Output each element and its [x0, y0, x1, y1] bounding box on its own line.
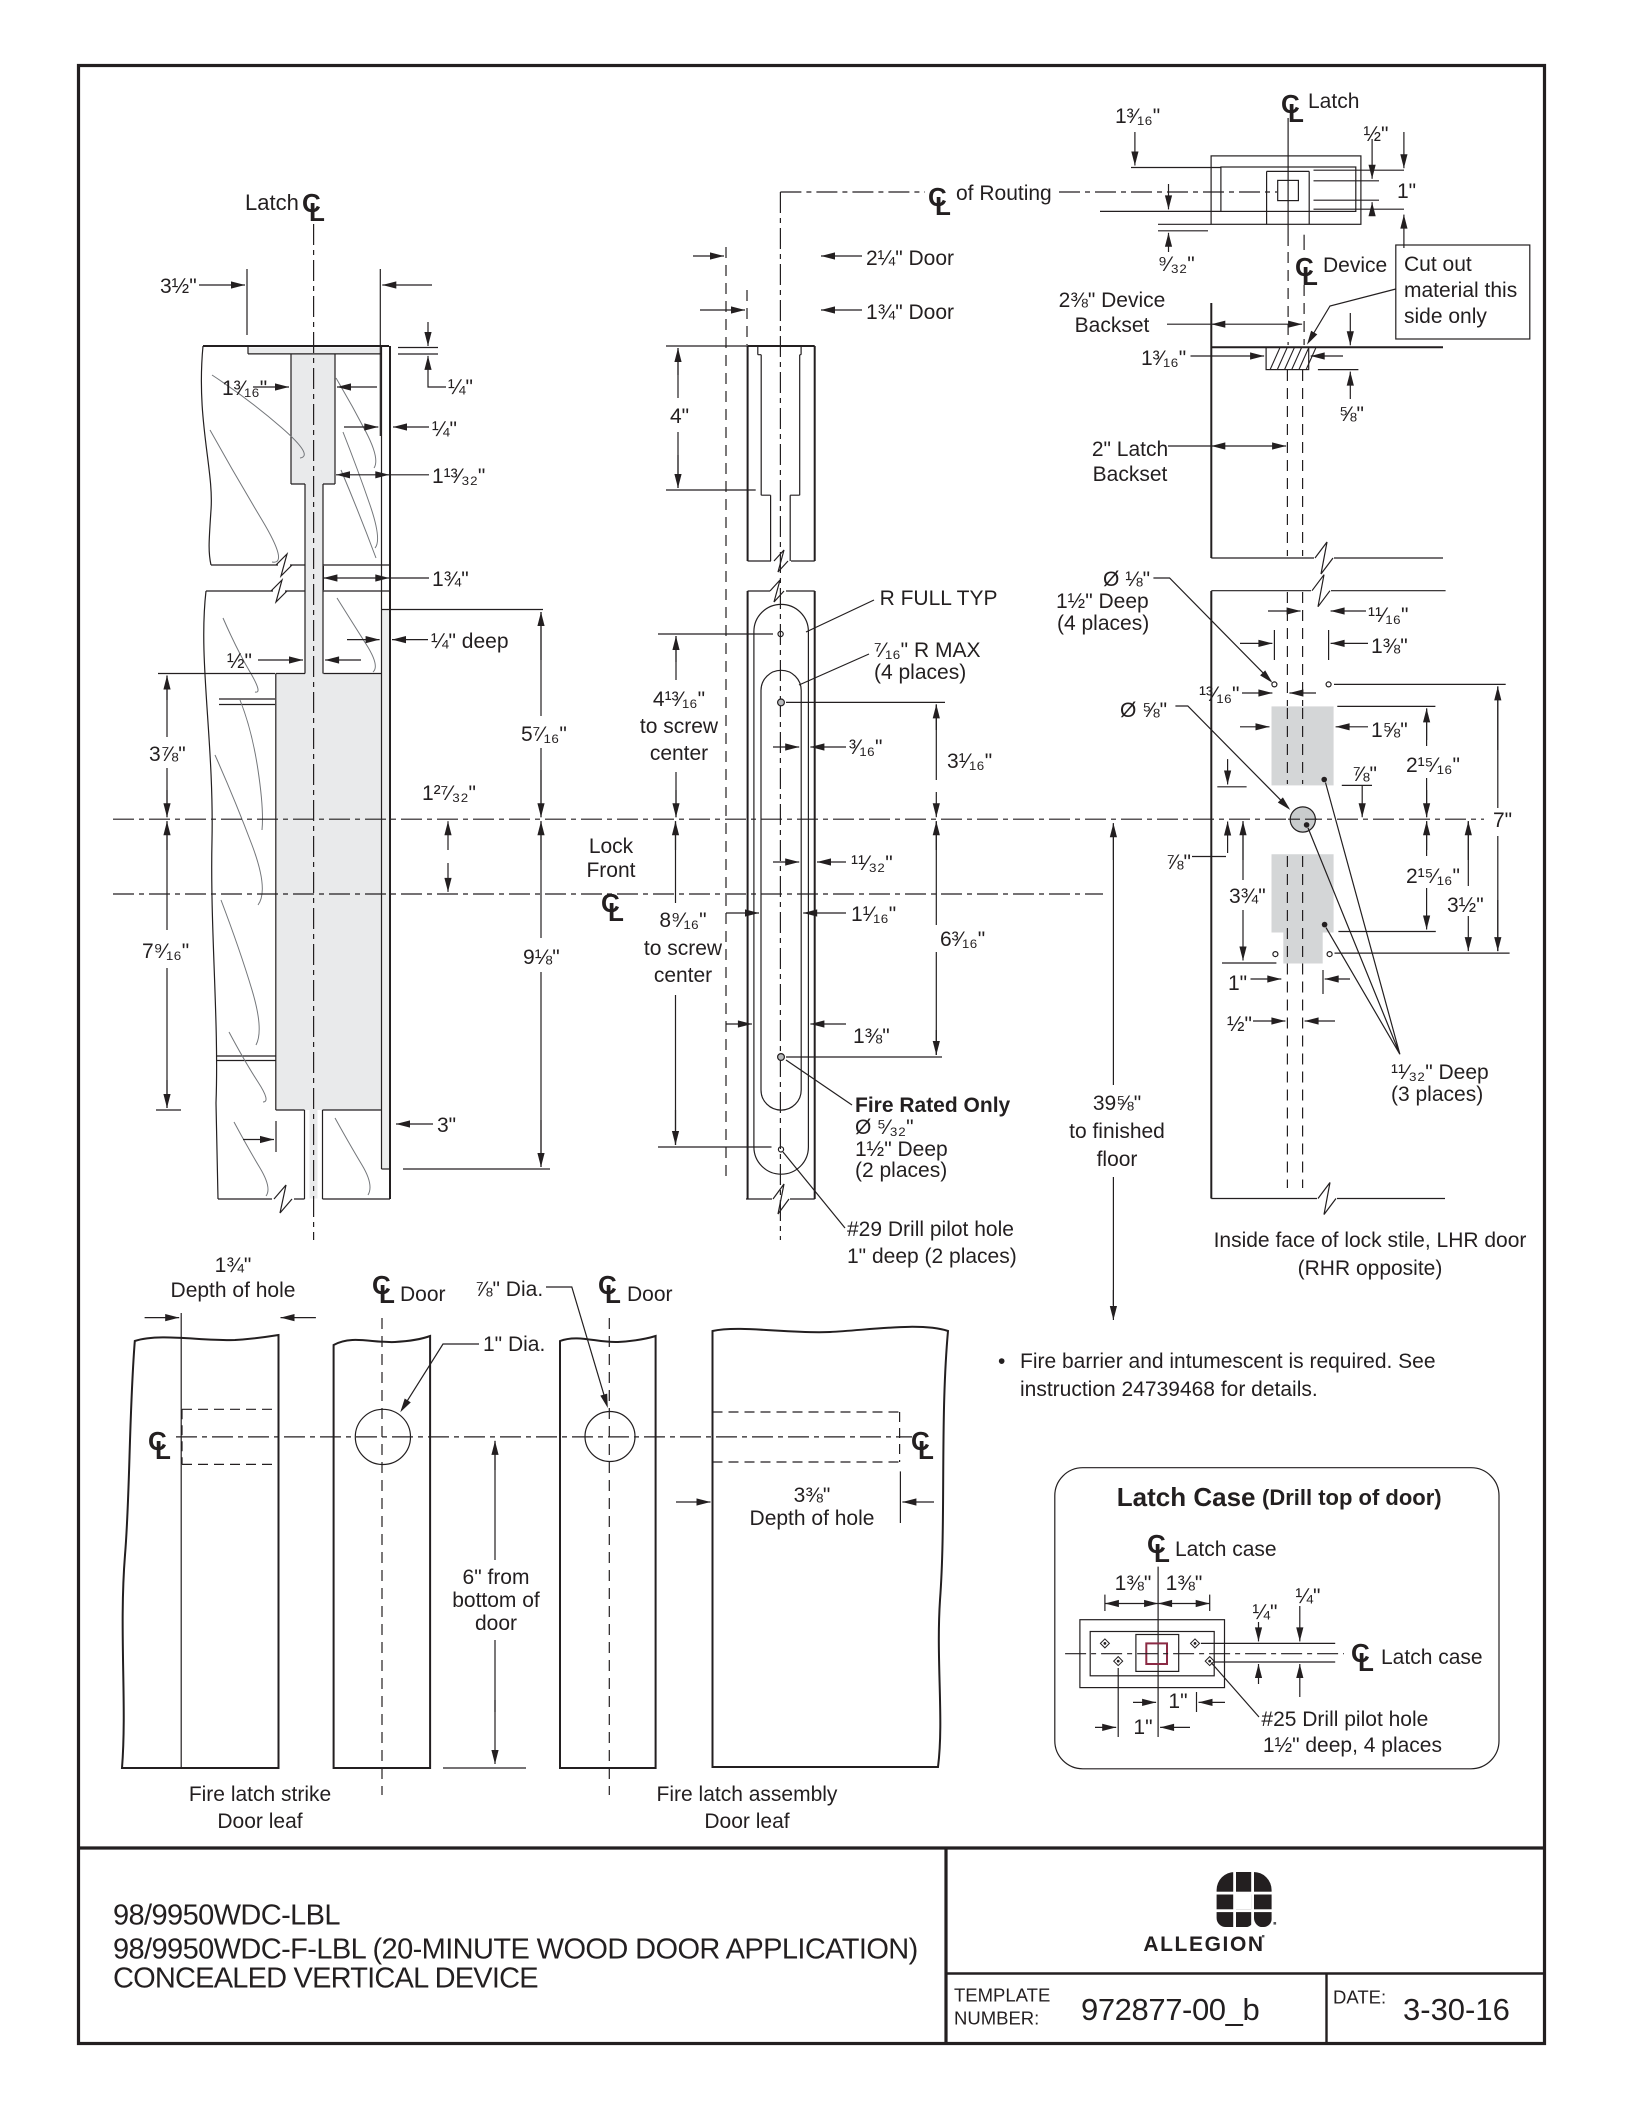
middle view vertical centerline [779, 192, 781, 1240]
svg-text:Latch case: Latch case [1175, 1538, 1277, 1561]
svg-text:R FULL TYP: R FULL TYP [880, 587, 998, 610]
svg-text:2⅜" Device: 2⅜" Device [1059, 289, 1166, 312]
lock stile upper break edge [1211, 557, 1314, 559]
svg-text:1": 1" [1168, 1690, 1187, 1713]
left view narrow channel fill upper [305, 484, 323, 674]
latch case pilot marker 4 [1205, 1657, 1214, 1666]
svg-text:1⅜": 1⅜" [853, 1025, 890, 1048]
pilot hole top (#29) [778, 631, 783, 636]
pilot hole bottom (#29) [778, 1147, 783, 1152]
dimension 1-13/32 inch (left view) [336, 474, 389, 476]
svg-text:(4 places): (4 places) [1057, 612, 1149, 635]
svg-text:(Drill top of door): (Drill top of door) [1262, 1485, 1442, 1510]
svg-text:⅞": ⅞" [1352, 763, 1377, 786]
svg-text:¹³⁄₁₆": ¹³⁄₁₆" [1199, 683, 1240, 706]
latch case plate inner rect [1090, 1632, 1214, 1676]
lock stile left edge [1210, 303, 1212, 1199]
latch case pilot marker 2 [1114, 1657, 1123, 1666]
svg-text:Cut out: Cut out [1404, 253, 1472, 276]
device centerline dashes lower stile [1302, 964, 1304, 1189]
label CL Door (leaf C) [598, 1270, 621, 1309]
left view lower section top break edge [206, 590, 273, 592]
svg-text:1¾" Door: 1¾" Door [866, 301, 954, 324]
svg-text:¼" deep: ¼" deep [431, 630, 509, 653]
title block logo/number divider [946, 1972, 1545, 1974]
svg-text:NUMBER:: NUMBER: [954, 2008, 1039, 2029]
Allegion logo mark [1215, 1870, 1272, 1928]
svg-text:2" Latch: 2" Latch [1092, 438, 1168, 461]
latch case horizontal centerline [1065, 1653, 1344, 1655]
svg-text:4¹³⁄₁₆": 4¹³⁄₁₆" [653, 688, 705, 711]
title block template/date divider [1325, 1974, 1327, 2044]
screw hole upper (gray) [778, 699, 785, 706]
lock stile top edge [1211, 346, 1443, 348]
svg-text:9⅛": 9⅛" [523, 946, 560, 969]
svg-text:L: L [1154, 1538, 1170, 1568]
left view narrow channel outline upper [305, 484, 323, 674]
middle view upper break edge [748, 560, 771, 562]
svg-text:L: L [605, 1279, 621, 1309]
svg-text:#25 Drill pilot hole: #25 Drill pilot hole [1261, 1708, 1428, 1731]
left view face routing inner line [381, 346, 383, 1169]
svg-text:4": 4" [670, 405, 689, 428]
svg-text:39⅝": 39⅝" [1093, 1092, 1141, 1115]
cutout hatched rectangle [1266, 347, 1309, 369]
svg-text:(3 places): (3 places) [1391, 1083, 1483, 1106]
svg-text:Depth of hole: Depth of hole [171, 1279, 296, 1302]
device centerline through lower block [1302, 856, 1304, 961]
leaf B vertical centerline [381, 1318, 383, 1795]
label CL of Routing [928, 182, 951, 221]
svg-text:Latch: Latch [1308, 90, 1359, 113]
horizontal centerline through leaves [176, 1436, 912, 1438]
svg-text:L: L [1358, 1647, 1374, 1677]
svg-text:Fire barrier and intumescent i: Fire barrier and intumescent is required… [1020, 1350, 1436, 1373]
leaf D outline [713, 1327, 949, 1767]
svg-text:⁹⁄₃₂": ⁹⁄₃₂" [1158, 253, 1195, 276]
left view door top edge [203, 345, 389, 347]
upper pilot hole right [1326, 682, 1331, 687]
title block vertical divider [944, 1848, 947, 2044]
svg-text:6" from: 6" from [463, 1566, 530, 1589]
svg-text:Front: Front [586, 859, 635, 882]
label CL latch case (top) [1147, 1529, 1170, 1568]
svg-text:½": ½" [1364, 123, 1389, 146]
svg-text:Door leaf: Door leaf [217, 1810, 302, 1833]
svg-text:(4 places): (4 places) [874, 661, 966, 684]
left view mortise pocket outline [276, 674, 382, 1111]
middle view top notch outline [758, 346, 801, 355]
svg-text:1¾": 1¾" [432, 568, 469, 591]
svg-text:Latch Case: Latch Case [1117, 1482, 1256, 1512]
svg-text:door: door [475, 1612, 517, 1635]
svg-text:⅞" Dia.: ⅞" Dia. [475, 1278, 543, 1301]
svg-text:3½": 3½" [1447, 894, 1484, 917]
device centerline dashes upper stile [1302, 370, 1304, 556]
lower pilot hole right [1327, 952, 1332, 957]
svg-text:L: L [155, 1435, 171, 1465]
svg-text:Ø ⅝": Ø ⅝" [1120, 699, 1167, 722]
svg-text:Fire latch strike: Fire latch strike [189, 1783, 331, 1806]
dimension 2-15/16 lower [1338, 931, 1435, 933]
middle view lower break top edge [748, 590, 770, 592]
dimension 4 inch (middle view) [666, 345, 749, 347]
latch plan extension lines [1100, 211, 1221, 230]
label CL at leaf D [911, 1426, 934, 1465]
leaf C 7/8 inch hole [585, 1412, 635, 1462]
latch plan vertical centerline [1287, 118, 1289, 246]
title block top line [79, 1846, 1545, 1849]
leaf B 1 inch hole [355, 1409, 410, 1464]
cut out leader arrow [1309, 289, 1396, 341]
svg-text:Ø ⅛": Ø ⅛" [1103, 568, 1150, 591]
left view vertical centerline [313, 224, 315, 1240]
svg-text:Inside face of lock stile, LHR: Inside face of lock stile, LHR door [1214, 1229, 1527, 1252]
latch plan outer rectangle [1211, 156, 1361, 224]
svg-text:⅞": ⅞" [1166, 851, 1191, 874]
label CL at leaf A [148, 1426, 171, 1465]
label CL latch case (right) [1351, 1638, 1374, 1677]
svg-text:side only: side only [1404, 305, 1487, 328]
latch plan strike lines [1314, 170, 1405, 209]
svg-text:to screw: to screw [640, 715, 719, 738]
svg-text:Fire latch assembly: Fire latch assembly [657, 1783, 838, 1806]
leaf C outline [560, 1336, 656, 1768]
svg-text:L: L [608, 897, 624, 927]
svg-text:7⁹⁄₁₆": 7⁹⁄₁₆" [142, 940, 189, 963]
svg-text:floor: floor [1097, 1148, 1138, 1171]
svg-text:Door: Door [627, 1283, 673, 1306]
left view latch case edge lines upper [219, 699, 275, 705]
svg-text:ALLEGION: ALLEGION [1143, 1933, 1264, 1956]
svg-text:1": 1" [1133, 1716, 1152, 1739]
svg-text:7": 7" [1493, 809, 1512, 832]
svg-text:1" deep (2 places): 1" deep (2 places) [847, 1245, 1017, 1268]
dimension 2-15/16 upper [1337, 705, 1435, 707]
routing horizontal centerline left segment [780, 191, 925, 193]
dimension 5-7/16 inch (middle-left) [382, 609, 543, 611]
latch case small square (maroon) [1146, 1643, 1167, 1664]
svg-text:⅝": ⅝" [1339, 403, 1364, 426]
middle view door top edge [748, 345, 815, 347]
svg-text:1⅜": 1⅜" [1115, 1572, 1152, 1595]
device centerline stub above label [1303, 235, 1305, 250]
svg-text:1⅜": 1⅜" [1371, 635, 1408, 658]
svg-text:Backset: Backset [1093, 463, 1168, 486]
svg-text:2¹⁵⁄₁₆": 2¹⁵⁄₁₆" [1406, 865, 1460, 888]
svg-text:1⅝": 1⅝" [1371, 719, 1408, 742]
svg-text:⁷⁄₁₆" R MAX: ⁷⁄₁₆" R MAX [874, 639, 980, 662]
middle view 1-3/4 door face hidden line upper [746, 290, 748, 345]
svg-text:3¾": 3¾" [1229, 885, 1266, 908]
middle view slot step at 4in [761, 494, 800, 496]
svg-text:¹¹⁄₃₂": ¹¹⁄₃₂" [851, 852, 893, 875]
svg-text:Latch case: Latch case [1381, 1646, 1483, 1669]
svg-text:3⅜": 3⅜" [794, 1484, 831, 1507]
left view face routing bottom cap [382, 1168, 391, 1170]
left view wide channel fill [291, 354, 335, 484]
latch plan center square [1278, 180, 1299, 200]
middle view 2-1/4 door face hidden line [725, 247, 727, 1180]
label Device CL (plan view) [1295, 252, 1318, 291]
svg-text:of Routing: of Routing [956, 182, 1052, 205]
dimension 3-7/8 inch (left view) [158, 673, 275, 675]
latch case right extension lines [1201, 1643, 1335, 1662]
middle view inner slot (7/16 R MAX) [761, 670, 801, 1110]
middle view door left edge [747, 346, 749, 1199]
latch case detail rounded box [1055, 1468, 1499, 1769]
left view door right face line [389, 346, 391, 1199]
latch centerline through upper block [1286, 708, 1288, 784]
lower pilot hole left [1273, 952, 1278, 957]
svg-text:3½": 3½" [160, 275, 197, 298]
dimension 1/4 inch second (left view, face wall) [344, 426, 378, 428]
svg-text:1": 1" [1397, 180, 1416, 203]
svg-text:L: L [379, 1279, 395, 1309]
latch centerline dashes lower stile [1286, 964, 1288, 1189]
latch plan case rectangle [1267, 171, 1310, 224]
dimension 3-1/16 (middle right) [786, 701, 945, 703]
svg-text:1½" deep, 4 places: 1½" deep, 4 places [1263, 1734, 1442, 1757]
dimension 1-3/4 inch (left view door thickness) [322, 566, 324, 590]
svg-text:3⅞": 3⅞" [149, 743, 186, 766]
latch centerline through lower block [1286, 856, 1288, 961]
svg-text:5⁷⁄₁₆": 5⁷⁄₁₆" [521, 723, 567, 746]
svg-text:1³⁄₁₆": 1³⁄₁₆" [222, 377, 267, 400]
svg-text:1³⁄₁₆": 1³⁄₁₆" [1141, 347, 1186, 370]
latch centerline dashes upper stile [1286, 370, 1288, 556]
leaf A strike mortise dashed box [182, 1409, 279, 1464]
leaf D mortise dashed box [713, 1412, 900, 1462]
middle view narrow slot lines [771, 495, 791, 561]
svg-text:¹¹⁄₁₆": ¹¹⁄₁₆" [1368, 604, 1409, 627]
svg-text:(RHR opposite): (RHR opposite) [1298, 1257, 1443, 1280]
latch vertical centerline dashes to stile view [1287, 252, 1289, 345]
left view top groove outline [248, 346, 382, 354]
svg-text:1": 1" [1228, 972, 1247, 995]
svg-text:2¹⁵⁄₁₆": 2¹⁵⁄₁₆" [1406, 754, 1460, 777]
middle view door right edge [814, 346, 816, 1199]
lower mortise gray block [1272, 854, 1334, 963]
left view mortise pocket fill [276, 674, 382, 1111]
svg-text:instruction 24739468 for detai: instruction 24739468 for details. [1020, 1378, 1318, 1401]
svg-text:Ø ⁵⁄₃₂": Ø ⁵⁄₃₂" [855, 1116, 914, 1139]
svg-text:to finished: to finished [1069, 1120, 1165, 1143]
device horizontal centerline (full width dash-dot) [113, 818, 1484, 820]
leaf A (fire latch strike) outline [122, 1335, 279, 1768]
label Latch CL (plan view) [1281, 89, 1304, 128]
svg-text:center: center [654, 964, 712, 987]
svg-text:material this: material this [1404, 279, 1517, 302]
svg-text:1" Dia.: 1" Dia. [483, 1333, 545, 1356]
lock stile lower portion top edge [1211, 590, 1311, 592]
svg-text:2¼" Door: 2¼" Door [866, 247, 954, 270]
left view small arrow at bottom channel [275, 1121, 277, 1152]
svg-text:TEMPLATE: TEMPLATE [954, 1985, 1050, 2006]
cut out material label box [1396, 245, 1530, 339]
upper mortise gray block [1272, 706, 1334, 785]
svg-text:¼": ¼" [432, 418, 457, 441]
extension line bottom pilots [1335, 952, 1510, 954]
leaf B outline [334, 1336, 431, 1768]
left view upper section bottom break edge [211, 564, 278, 566]
svg-text:½": ½" [227, 650, 252, 673]
latch case plate outer rect [1080, 1620, 1225, 1688]
latch case center square [1136, 1635, 1179, 1672]
svg-text:¼": ¼" [448, 376, 473, 399]
device vertical centerline dashes to stile view [1303, 285, 1305, 345]
svg-text:L: L [918, 1435, 934, 1465]
5/8 dia hole (gray circle) [1290, 807, 1315, 832]
lock stile bottom edge [1211, 1198, 1317, 1200]
svg-text:DATE:: DATE: [1333, 1987, 1386, 2008]
label CL Door (leaf B) [372, 1270, 395, 1309]
left view wavy wood-break left edge lower [204, 591, 218, 1199]
svg-text:972877-00_b: 972877-00_b [1081, 1992, 1259, 2027]
svg-text:bottom of: bottom of [452, 1589, 540, 1612]
left view latch case edge lines lower [217, 1056, 276, 1061]
latch centerline dashes mid stile [1286, 592, 1288, 706]
svg-text:¹¹⁄₃₂" Deep: ¹¹⁄₃₂" Deep [1391, 1061, 1489, 1084]
leaf A hole depth line [180, 1313, 182, 1768]
dimension 6-3/16 (middle right) [786, 1056, 942, 1058]
latch plan inner rectangle [1221, 167, 1356, 211]
routing horizontal centerline right segment [1059, 191, 1277, 193]
left view narrow channel outline lower [305, 1110, 323, 1199]
svg-text:6³⁄₁₆": 6³⁄₁₆" [940, 928, 985, 951]
latch case pilot marker 1 [1100, 1639, 1109, 1648]
left 7/8 arrows (stile) [1227, 759, 1229, 784]
svg-text:#29 Drill pilot hole: #29 Drill pilot hole [847, 1218, 1014, 1241]
svg-text:Lock: Lock [589, 835, 634, 858]
latch case vertical centerline [1157, 1567, 1159, 1737]
svg-text:3-30-16: 3-30-16 [1403, 1992, 1510, 2027]
dimension 1/4 inch first (left view, groove depth) [398, 348, 438, 355]
middle view outer slot (R FULL) [754, 604, 809, 1174]
left view top groove fill (1/4 deep x 3-1/2 wide) [248, 348, 381, 355]
svg-text:Latch: Latch [245, 190, 299, 215]
svg-text:¼": ¼" [1296, 1585, 1321, 1608]
svg-text:¼": ¼" [1253, 1601, 1278, 1624]
svg-text:Depth of hole: Depth of hole [750, 1507, 875, 1530]
svg-text:1¹³⁄₃₂": 1¹³⁄₃₂" [432, 465, 485, 488]
device centerline dashes mid stile [1302, 592, 1304, 706]
svg-text:Door leaf: Door leaf [704, 1810, 789, 1833]
Allegion logo TM [1274, 1922, 1277, 1925]
dimension 5/8 inch (cutout height) [1318, 369, 1359, 371]
svg-text:(2 places): (2 places) [855, 1159, 947, 1182]
leaf C vertical centerline [608, 1318, 610, 1795]
svg-text:8⁹⁄₁₆": 8⁹⁄₁₆" [659, 909, 706, 932]
svg-text:3": 3" [437, 1114, 456, 1137]
svg-text:Fire Rated Only: Fire Rated Only [855, 1094, 1011, 1117]
svg-text:Device: Device [1323, 254, 1387, 277]
svg-text:1³⁄₁₆": 1³⁄₁₆" [1115, 105, 1160, 128]
svg-text:Backset: Backset [1075, 314, 1150, 337]
svg-text:CONCEALED VERTICAL DEVICE: CONCEALED VERTICAL DEVICE [113, 1963, 538, 1995]
left view wide channel outline [291, 354, 335, 484]
dimension 4-13/16 to screw center [658, 633, 773, 635]
svg-text:to screw: to screw [644, 937, 723, 960]
left view narrow channel fill lower [310, 1110, 318, 1199]
middle view door bottom edge [746, 1198, 772, 1200]
svg-text:L: L [309, 197, 325, 227]
svg-text:1½" Deep: 1½" Deep [855, 1138, 948, 1161]
upper pilot hole left [1272, 682, 1277, 687]
latch case pilot marker 3 [1191, 1639, 1200, 1648]
svg-text:½": ½" [1227, 1013, 1252, 1036]
svg-text:Door: Door [400, 1283, 446, 1306]
svg-text:L: L [935, 191, 951, 221]
middle view 4in slot lines [761, 355, 800, 496]
left view wavy wood-break left edge upper [201, 346, 211, 565]
svg-text:•: • [998, 1350, 1005, 1373]
svg-text:L: L [1288, 98, 1304, 128]
svg-text:98/9950WDC-LBL: 98/9950WDC-LBL [113, 1900, 340, 1932]
svg-text:1½" Deep: 1½" Deep [1056, 590, 1149, 613]
svg-text:1⅜": 1⅜" [1166, 1572, 1203, 1595]
svg-text:1²⁷⁄₃₂": 1²⁷⁄₃₂" [422, 782, 476, 805]
svg-text:98/9950WDC-F-LBL (20-MINUTE WO: 98/9950WDC-F-LBL (20-MINUTE WOOD DOOR AP… [113, 1934, 918, 1966]
svg-text:³⁄₁₆": ³⁄₁₆" [849, 736, 883, 759]
extension line from upper right pilot [1334, 683, 1506, 685]
left view door bottom edge [218, 1198, 272, 1200]
left view 1/4in face routing strip fill [382, 610, 390, 1169]
device centerline through upper block [1302, 708, 1304, 784]
screw hole lower (gray) [778, 1054, 785, 1061]
svg-text:1¹⁄₁₆": 1¹⁄₁₆" [851, 903, 896, 926]
left view wood grain lines [212, 375, 304, 458]
svg-text:center: center [650, 742, 708, 765]
device centerline through 5/8 hole [1288, 818, 1318, 820]
svg-text:1¾": 1¾" [215, 1254, 252, 1277]
svg-text:3¹⁄₁₆": 3¹⁄₁₆" [947, 750, 992, 773]
lock front horizontal centerline [113, 893, 1103, 895]
